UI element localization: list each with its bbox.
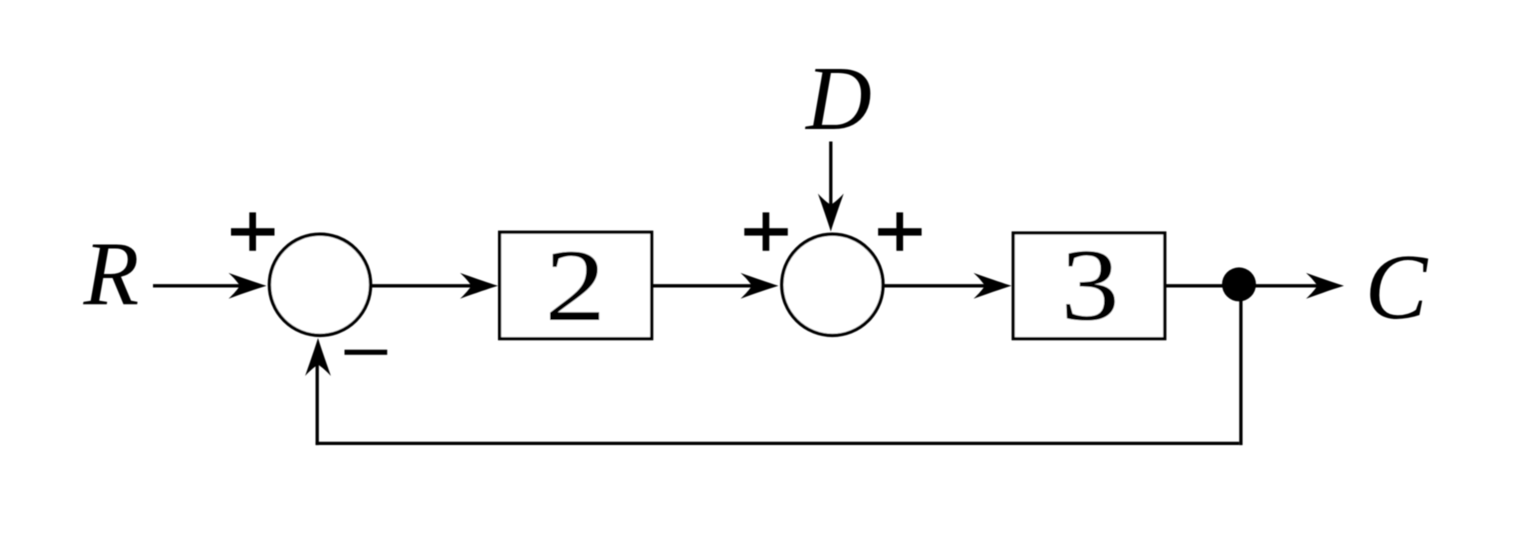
arrowhead into S1 <box>229 273 267 299</box>
arrowhead into block 3 <box>974 273 1012 299</box>
gain block 2 <box>500 232 652 339</box>
feedback wire down from node <box>1239 284 1242 445</box>
svg-text:3: 3 <box>1061 228 1120 342</box>
svg-text:R: R <box>83 223 140 324</box>
wire block 3 to node <box>1165 284 1241 287</box>
arrowhead into block 2 <box>460 273 498 299</box>
gain block 3 <box>1013 233 1165 339</box>
summing junction S2 <box>782 234 883 335</box>
node dot <box>1222 267 1256 301</box>
arrowhead to C <box>1306 273 1344 299</box>
arrowhead down into S2 <box>818 194 844 232</box>
wire R to summing junction S1 <box>153 284 250 287</box>
plus sign left of S2 <box>744 212 788 250</box>
feedback wire up to S1 <box>316 356 319 445</box>
wire node to C <box>1239 284 1327 287</box>
svg-text:C: C <box>1365 236 1429 339</box>
minus sign below right of S1 <box>345 350 388 355</box>
svg-text:2: 2 <box>545 229 606 343</box>
summing junction S1 <box>269 234 370 335</box>
plus sign right of S2 <box>878 212 922 250</box>
wire block 2 to summing junction S2 <box>652 284 762 287</box>
arrowhead up into S1 bottom <box>305 338 331 376</box>
wire S2 to block 3 <box>883 284 996 287</box>
feedback wire bottom <box>316 442 1240 445</box>
svg-text:D: D <box>804 48 872 149</box>
wire D down to S2 <box>829 142 832 217</box>
wire S1 to block 2 <box>371 284 482 287</box>
plus sign above left of S1 <box>231 212 275 250</box>
arrowhead into S2 <box>741 273 779 299</box>
